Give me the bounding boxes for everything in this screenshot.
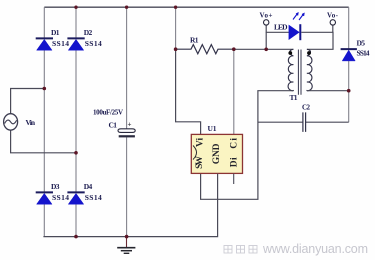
transformer T1 primary winding [288,49,293,90]
svg-text:Di: Di [230,157,240,167]
wire Vo- stem [332,25,334,32]
junction R1 left [174,47,178,51]
terminal Vo+ [264,20,269,25]
svg-text:SW: SW [195,155,205,169]
svg-text:T1: T1 [290,93,298,102]
svg-text:LED: LED [274,23,288,32]
phase dot secondary [307,51,311,55]
phase dot primary [288,51,292,55]
svg-text:D1: D1 [51,28,60,37]
wire Vi path (R1 left to U1 top-left pin) [176,49,201,134]
diode D4 [67,192,84,204]
LED [289,13,304,40]
IC U1 body [191,134,242,173]
svg-text:D5: D5 [357,39,366,48]
svg-text:www.dianyuan.com: www.dianyuan.com [262,242,368,256]
wire secondary bottom to D5 anode [307,90,349,92]
wire D5 column [348,7,350,122]
svg-text:100uF/25V: 100uF/25V [93,109,123,117]
terminal Vo- [330,20,335,25]
capacitor C2 [258,112,349,131]
wire Vin bottom lead [11,130,76,153]
wire top rail [44,6,348,8]
wire LED cathode to Vo- / secondary top [301,32,333,49]
wire D1/D3 column [43,7,45,236]
svg-text:Ci: Ci [230,138,240,149]
wire R1 left column [175,7,177,49]
svg-text:SS14: SS14 [357,49,370,58]
svg-text:SS14: SS14 [85,39,102,48]
svg-text:Vin: Vin [26,118,36,127]
svg-text:GND: GND [212,143,222,164]
junction Vo+ branch [264,48,268,52]
wire GND pin to bottom rail [43,174,217,237]
junction R1 right / Ci [232,47,236,51]
junction top rail / D2 [74,6,77,9]
junction Vin bottom / bridge right [74,151,78,155]
svg-text:Vo+: Vo+ [260,12,273,20]
wire main node rail (R1 right to T1 primary top) [234,48,294,50]
svg-text:D4: D4 [84,182,93,191]
wire primary bottom to SW node [201,91,294,200]
transformer core [298,50,301,95]
junction top rail / R1 column [174,6,177,9]
diode D2 [67,38,84,50]
svg-text:C2: C2 [302,104,311,112]
svg-text:SS14: SS14 [85,193,102,202]
wire Vin top lead [11,89,45,114]
diode D3 [36,192,53,204]
wire D2/D4 column [75,7,77,236]
junction secondary bottom / D5 [347,89,351,93]
svg-text:D2: D2 [84,28,93,37]
transformer T1 secondary winding [307,49,312,90]
svg-text:R1: R1 [190,35,199,44]
resistor R1 [176,45,234,54]
feedback arc inside U1 [193,146,197,160]
junction bottom rail / D4 [74,235,78,239]
svg-text:D3: D3 [51,182,60,191]
svg-text:Vi: Vi [196,137,206,147]
junction top rail / C1 [125,6,128,9]
svg-text:Vo-: Vo- [327,12,339,20]
diode D1 [36,38,53,50]
diode D5 [341,49,357,61]
wire Ci path (R1 right down to U1 top-right pin) [233,49,235,134]
junction bottom rail / ground [125,235,129,239]
svg-text:C1: C1 [109,121,118,130]
svg-text:SS14: SS14 [52,193,69,202]
junction Vin top / bridge left [43,87,47,91]
watermark [224,246,257,254]
capacitor C1 [118,129,135,138]
wire Vo+ branch [266,25,299,32]
wire C1 column [126,7,128,236]
ground symbol [117,237,135,254]
stub Di pin [233,174,235,184]
svg-text:+: + [128,121,132,129]
AC source Vin [4,114,18,130]
svg-text:SS14: SS14 [52,39,69,48]
svg-text:U1: U1 [208,124,217,133]
